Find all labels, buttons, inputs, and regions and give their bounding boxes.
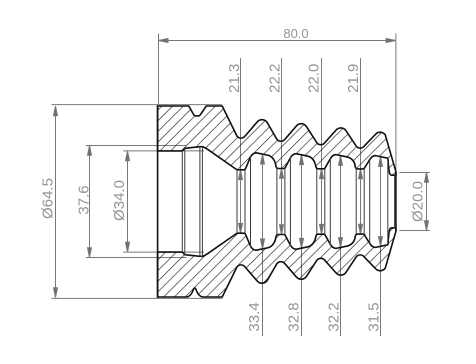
svg-text:Ø64.5: Ø64.5 [40, 178, 57, 219]
ext line label 21.9 [360, 58, 362, 234]
end bore edge circles [387, 161, 389, 242]
svg-text:Ø34.0: Ø34.0 [111, 180, 128, 221]
hatching bottom half [150, 95, 405, 310]
ext line label 22.0 [321, 58, 323, 234]
ext line 37.6 bottom [86, 257, 187, 259]
ext line label 21.3 [240, 58, 242, 233]
dim line dia34.0 [127, 151, 129, 252]
ext line 80 right [395, 34, 397, 172]
bore arrows 32.2 [339, 156, 343, 166]
ext line label 32.8 [301, 155, 303, 336]
ext line 80 left [158, 34, 160, 105]
svg-text:80.0: 80.0 [283, 26, 308, 41]
dim line dia64.5 [55, 106, 57, 298]
ext line dia20 top [399, 172, 430, 174]
ext/tangent line dia64.5 top [52, 104, 223, 106]
right end face [395, 172, 397, 232]
svg-text:33.4: 33.4 [246, 302, 263, 331]
dim line dia20.0 [426, 173, 428, 231]
svg-text:22.2: 22.2 [266, 64, 283, 93]
chamber1 wall circle [250, 156, 252, 246]
neck3 edge circles [316, 169, 318, 234]
bore lip step edges [181, 151, 183, 252]
bore arrows 21.3 [239, 170, 243, 180]
ext line 37.6 top [86, 145, 187, 147]
dim line 80.0 [158, 40, 396, 42]
bore arrows 32.8 [300, 155, 304, 165]
chamber4 wall circle [369, 159, 371, 243]
ext/tangent line dia64.5 bottom [52, 297, 223, 299]
chamber2 wall circle [289, 157, 291, 246]
svg-text:31.5: 31.5 [366, 302, 383, 331]
bore cone step edges [199, 147, 201, 256]
bore arrows 22.0 [320, 169, 324, 179]
part outline bottom half [158, 228, 396, 297]
svg-text:Ø20.0: Ø20.0 [410, 181, 427, 222]
bore arrows 33.4 [261, 154, 265, 164]
ext line label 31.5 [380, 157, 382, 336]
ext line label 33.4 [262, 154, 264, 336]
bore arrows 22.2 [280, 169, 284, 179]
part outline top half [158, 106, 396, 175]
svg-text:32.8: 32.8 [286, 302, 303, 331]
bore arrows 21.9 [359, 169, 363, 179]
svg-text:37.6: 37.6 [76, 185, 93, 214]
ext line dia34 top [123, 150, 204, 152]
dim line 37.6 [89, 146, 91, 258]
ext line label 22.2 [281, 58, 283, 235]
neck4 edge circles [355, 169, 357, 234]
ext line dia20 bottom [399, 230, 430, 232]
neck1 edge circles [236, 170, 238, 233]
svg-text:22.0: 22.0 [306, 64, 323, 93]
ext line dia34 bottom [123, 251, 204, 253]
neck2 edge circles [276, 169, 278, 235]
hatching top half [150, 95, 405, 310]
svg-text:21.3: 21.3 [226, 64, 243, 93]
ext line label 32.2 [340, 156, 342, 336]
left end face [157, 105, 159, 298]
svg-text:32.2: 32.2 [326, 302, 343, 331]
bore arrows 31.5 [379, 157, 383, 167]
svg-text:21.9: 21.9 [345, 64, 362, 93]
chamber3 wall circle [329, 158, 331, 245]
